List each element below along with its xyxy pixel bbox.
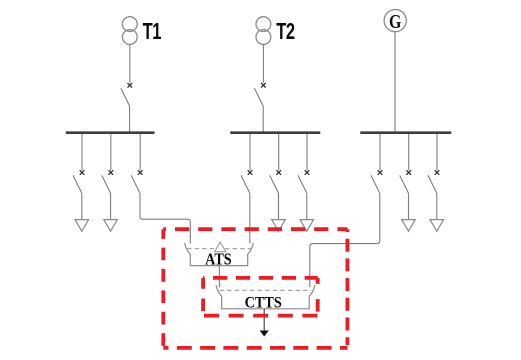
red dashed boundary inner (CTTS) — [203, 278, 318, 316]
red dashed boundary outer — [163, 229, 347, 348]
wire bus1 feeder 3 drop — [139, 134, 141, 170]
wire bus1 feeder 3 elbow to ATS — [140, 193, 190, 243]
wire bus1 feeder 2 drop — [110, 134, 112, 170]
svg-text:CTTS: CTTS — [245, 294, 282, 312]
breaker bus1 feeder 3 — [131, 170, 142, 193]
wire breaker to bus2 — [262, 106, 264, 132]
CTTS dashed line — [220, 289, 312, 291]
wire bus2 feeder 2 to load — [278, 193, 280, 219]
transformer T2 — [256, 17, 271, 45]
wire bus3 feeder 2 to load — [408, 193, 410, 219]
wire bus3 feeder 3 to load — [436, 193, 438, 219]
busbar 3 (G) — [360, 131, 451, 134]
wire T1 down — [129, 44, 131, 82]
ATS dashed line — [187, 248, 251, 250]
breaker T2 incomer — [254, 83, 265, 106]
ATS position triangle — [215, 242, 226, 252]
wire ATS output to CTTS — [218, 266, 220, 288]
wire bus3 feeder 3 drop — [436, 134, 438, 170]
svg-text:ATS: ATS — [205, 251, 232, 269]
wire bus2 feeder 1 to ATS — [249, 193, 251, 243]
wire breaker to bus1 — [129, 106, 131, 132]
breaker bus3 feeder 2 — [400, 170, 411, 193]
svg-text:T1: T1 — [143, 19, 162, 44]
breaker bus2 feeder 1 — [241, 170, 252, 193]
CTTS box — [216, 285, 315, 309]
load arrow bus2-3 — [300, 220, 314, 232]
wire bus3 feeder 1 drop — [379, 134, 381, 170]
breaker bus3 feeder 3 — [428, 170, 439, 193]
CTTS output wire — [263, 309, 265, 331]
svg-text:G: G — [389, 10, 401, 32]
wire bus2 feeder 3 drop — [306, 134, 308, 170]
busbar 1 (T1) — [66, 131, 155, 134]
wire bus1 feeder 1 to load — [81, 193, 83, 219]
wire bus1 feeder 1 drop — [81, 134, 83, 170]
load arrow bus3-2 — [402, 220, 416, 232]
wire bus2 feeder 3 to load — [306, 193, 308, 219]
load arrow bus1-1 — [75, 220, 89, 232]
CTTS output arrow — [260, 331, 269, 337]
svg-text:T2: T2 — [276, 19, 295, 44]
breaker bus3 feeder 1 — [371, 170, 382, 193]
breaker bus1 feeder 2 — [102, 170, 113, 193]
breaker bus2 feeder 3 — [298, 170, 309, 193]
breaker bus1 feeder 1 — [73, 170, 84, 193]
wire T2 down — [262, 44, 264, 82]
transformer T1 — [122, 17, 137, 45]
wire bus3 feeder 1 elbow to CTTS — [310, 193, 380, 287]
load arrow bus3-3 — [430, 220, 444, 232]
wire bus2 feeder 2 drop — [278, 134, 280, 170]
wire bus1 feeder 2 to load — [110, 193, 112, 219]
wire G to bus3 — [394, 32, 396, 132]
breaker bus2 feeder 2 — [270, 170, 281, 193]
generator G — [384, 10, 406, 33]
breaker T1 incomer — [121, 83, 132, 106]
wire bus3 feeder 2 drop — [408, 134, 410, 170]
ATS box — [185, 243, 254, 266]
load arrow bus1-2 — [104, 220, 118, 232]
wire bus2 feeder 1 drop — [249, 134, 251, 170]
busbar 2 (T2) — [230, 131, 320, 134]
load arrow bus2-2 — [272, 220, 286, 232]
